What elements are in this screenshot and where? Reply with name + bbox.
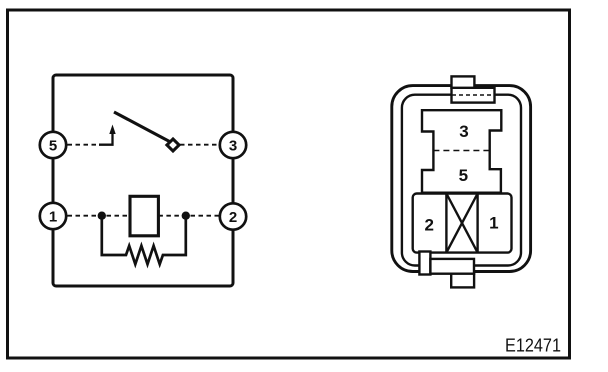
svg-text:1: 1 <box>49 208 57 225</box>
coil L1 <box>130 196 158 236</box>
svg-text:5: 5 <box>459 166 468 185</box>
switch actuator arrow <box>99 131 113 145</box>
terminal circle 2 <box>220 203 246 229</box>
svg-text:5: 5 <box>49 137 57 154</box>
resistor R1 loop <box>102 216 186 265</box>
wire dashed: pin5 to switch arrow <box>68 144 101 146</box>
svg-text:3: 3 <box>229 137 237 154</box>
svg-text:2: 2 <box>424 215 433 234</box>
terminal circle 5 <box>40 132 66 158</box>
wire dashed: node to pin2 <box>191 215 220 217</box>
wire dashed: coil to node <box>158 215 181 217</box>
divider right <box>476 194 478 253</box>
wire dashed: pin1 to node <box>68 215 98 217</box>
bottom wide block <box>430 259 474 274</box>
wire dashed: node to coil <box>107 215 131 217</box>
switch blade <box>114 112 170 142</box>
switch contact diamond <box>167 139 179 151</box>
top tab inner dashed line <box>452 94 494 96</box>
svg-text:E12471: E12471 <box>505 335 561 356</box>
terminal circle 3 <box>220 132 246 158</box>
connector outer shell <box>392 86 531 272</box>
top tab wide block <box>452 88 495 103</box>
divider left <box>445 194 447 253</box>
connector inner shell <box>402 95 521 266</box>
svg-text:1: 1 <box>489 214 498 233</box>
node dot right <box>182 212 190 220</box>
svg-text:3: 3 <box>459 122 468 141</box>
cavity 3 and 5 outline <box>422 110 501 193</box>
top tab narrow block <box>452 76 475 87</box>
cavity 3/5 separator <box>433 150 489 152</box>
bottom cavity row <box>413 194 512 253</box>
bottom tab <box>451 274 474 288</box>
keyway X <box>446 194 477 253</box>
relay body box <box>53 75 233 286</box>
node dot left <box>98 212 106 220</box>
svg-text:2: 2 <box>229 209 237 226</box>
terminal circle 1 <box>40 203 66 229</box>
wire dashed: diamond to pin3 <box>180 144 220 146</box>
bottom latch bar <box>419 252 430 275</box>
